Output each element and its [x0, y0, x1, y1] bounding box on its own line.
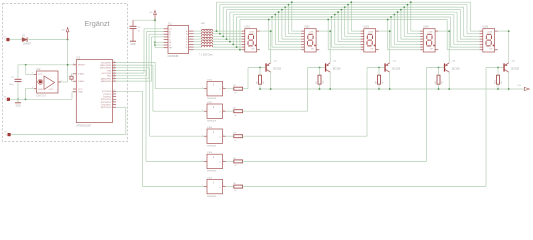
wire bus tap display 3 pin 8 [328, 19, 360, 49]
junction bus tap display 3 line 7 [331, 16, 333, 18]
svg-text:X1: X1 [4, 132, 7, 134]
optocoupler IC2 CNY17 [32, 68, 62, 98]
svg-text:U202: U202 [304, 27, 310, 29]
svg-text:2: 2 [219, 187, 221, 189]
connector pin X1-3 [4, 132, 10, 137]
svg-text:C3: C3 [11, 77, 15, 79]
wire +5V rail [260, 88, 524, 90]
junction bus tap display 3 line 5 [337, 11, 339, 13]
wire R4 to riser digit 4 [243, 160, 427, 162]
svg-text:V105: V105 [207, 177, 213, 179]
svg-text:DP: DP [430, 48, 433, 50]
svg-text:1: 1 [202, 110, 203, 112]
svg-text:Ergänzt: Ergänzt [84, 19, 109, 28]
wire bus riser segment 6 [232, 15, 234, 45]
svg-text:2: 2 [219, 136, 221, 138]
svg-text:BI: BI [169, 42, 171, 44]
svg-text:CD4543B: CD4543B [168, 55, 179, 58]
svg-text:1: 1 [202, 87, 203, 89]
junction bus tap display 3 line 4 [341, 9, 343, 11]
svg-text:DP: DP [252, 48, 255, 50]
junction R8 on rail [378, 88, 380, 90]
junction base Q4 / pull-up [438, 67, 440, 69]
junction Q5 emitter on rail [508, 88, 510, 90]
junction bus riser 5 on row [229, 41, 231, 43]
svg-text:+5V: +5V [517, 85, 521, 87]
svg-text:1k: 1k [234, 92, 236, 94]
wire riser digit 4 to base [426, 68, 428, 162]
junction R9 on rail [438, 88, 440, 90]
junction display U205 COM [508, 30, 510, 32]
optocoupler V104 SFH6206 [202, 152, 226, 173]
display U203 7-segment [361, 27, 379, 52]
junction bus tap display 2 line 1 [291, 1, 293, 3]
resistor R7 pull-up 4k7 [316, 68, 324, 90]
junction bus tap display 3 line 2 [347, 4, 349, 6]
wire segment row a to display U201 [213, 30, 242, 32]
wire R5 to riser digit 5 [243, 186, 487, 188]
junction Q1 emitter on rail [270, 88, 272, 90]
wire bus tap display 3 pin 2 [348, 5, 361, 34]
svg-text:2: 2 [219, 162, 221, 164]
svg-text:(AIN1)PB1: (AIN1)PB1 [101, 77, 112, 80]
wire segment row e to display U201 [213, 41, 242, 43]
wire IC3 PB2 to IC1 input B [116, 32, 164, 76]
decoder IC1 CD4543B [164, 23, 194, 59]
svg-text:1k: 1k [234, 190, 236, 192]
svg-text:IC3: IC3 [76, 57, 81, 60]
svg-text:4k7: 4k7 [382, 80, 384, 84]
svg-text:V103: V103 [207, 127, 213, 129]
svg-text:+5V: +5V [149, 12, 153, 14]
svg-text:BC328: BC328 [273, 67, 281, 70]
wire bus tap display 4 pin 4 [401, 10, 420, 39]
wire RESET net horizontal [18, 64, 76, 66]
junction bus tap display 2 line 3 [284, 6, 286, 8]
svg-text:100n: 100n [9, 84, 15, 86]
junction C3/GND-net [17, 98, 19, 100]
wire display U205 COM to transistor Q5 [498, 31, 509, 63]
wire bus tap display 2 pin 2 [289, 5, 302, 34]
wire display U202 COM to transistor Q2 [319, 31, 330, 63]
svg-text:V101: V101 [207, 80, 213, 82]
wire bus riser segment 7 [236, 17, 238, 47]
svg-text:COM: COM [428, 32, 433, 34]
svg-text:SFH6206: SFH6206 [207, 98, 217, 100]
junction bus riser 1 on row [216, 30, 218, 32]
svg-text:COM: COM [249, 32, 254, 34]
wire bus tap display 5 pin 2 [467, 5, 480, 34]
wire IC2 cathode to GND net [26, 89, 35, 100]
transistor Q4 BC328 [444, 61, 460, 73]
wire bus tap display 5 pin 1 [470, 2, 479, 31]
wire bus line 8 [240, 18, 447, 20]
wire IC1 dp row to display U201 [194, 49, 242, 51]
svg-text:RN1: RN1 [201, 23, 206, 25]
svg-text:GND: GND [130, 44, 135, 46]
display U202 7-segment [301, 27, 319, 52]
svg-text:Q3: Q3 [393, 61, 397, 63]
svg-text:XTAL1: XTAL1 [78, 73, 85, 76]
svg-text:2: 2 [223, 110, 224, 112]
wire bus tap display 4 pin 8 [388, 19, 420, 49]
svg-text:GND: GND [15, 106, 20, 108]
wire bus line 7 [237, 16, 451, 18]
svg-text:4k7: 4k7 [501, 80, 503, 84]
wire display U201 COM to transistor Q1 [260, 31, 271, 63]
junction base Q2 / pull-up [319, 67, 321, 69]
wire bus tap display 5 pin 5 [457, 12, 480, 42]
wire GND net horizontal [10, 98, 72, 100]
svg-text:2: 2 [223, 160, 224, 162]
wire bus tap display 5 pin 4 [460, 10, 479, 39]
wire pin1 to diode D1 [10, 39, 23, 41]
junction bus tap display 3 line 1 [350, 1, 352, 3]
wire segment row f to display U201 [213, 43, 242, 45]
svg-text:1: 1 [213, 105, 215, 109]
junction node diode/VCC [67, 39, 69, 41]
junction Q3 emitter on rail [389, 88, 391, 90]
wire riser digit 2 to base [307, 68, 309, 112]
wire transistor Q3 emitter to +5V rail [389, 72, 391, 89]
junction IC1 pin7 tap [154, 44, 156, 46]
svg-text:C: C [169, 37, 171, 39]
svg-text:2: 2 [5, 99, 7, 101]
junction bus tap display 4 line 8 [387, 19, 389, 21]
transistor Q2 BC328 [325, 61, 341, 73]
svg-text:Q4: Q4 [452, 61, 456, 63]
svg-text:7 x 220 Ohm: 7 x 220 Ohm [199, 54, 213, 57]
wire IC3 PB0 to IC1 input D [116, 37, 164, 81]
svg-text:B: B [169, 34, 171, 36]
junction bus tap display 2 line 4 [281, 9, 283, 11]
svg-text:12: 12 [113, 80, 115, 82]
display U204 7-segment [420, 27, 438, 52]
wire bus tap display 2 pin 4 [282, 10, 301, 39]
resistor R2 1k [226, 108, 243, 117]
wire bus riser segment 8 [239, 19, 241, 49]
junction base Q3 / pull-up [378, 67, 380, 69]
wire bus tap display 4 pin 1 [411, 2, 420, 31]
junction Q4 emitter on rail [448, 88, 450, 90]
junction RESET/VCC1 vertical [67, 64, 69, 66]
svg-text:2: 2 [223, 87, 224, 89]
junction bus riser 4 on row [226, 38, 228, 40]
junction bus tap display 4 line 5 [397, 11, 399, 13]
wire bus tap display 3 pin 4 [341, 10, 360, 39]
svg-text:LT: LT [169, 45, 172, 47]
wire bus tap display 3 pin 3 [345, 7, 361, 36]
svg-text:1: 1 [213, 155, 215, 159]
connector pin X1-1 [3, 37, 9, 42]
svg-text:RESET: RESET [78, 65, 86, 67]
svg-text:SFH6206: SFH6206 [207, 121, 217, 123]
svg-text:BC328: BC328 [452, 67, 460, 70]
svg-text:G: G [186, 47, 188, 49]
svg-text:DP: DP [371, 48, 374, 50]
svg-text:XTAL2: XTAL2 [78, 80, 85, 83]
svg-text:COM: COM [368, 32, 373, 34]
wire transistor Q4 emitter to +5V rail [448, 72, 450, 89]
junction bus tap display 3 line 3 [344, 6, 346, 8]
transistor Q5 BC328 [503, 61, 519, 73]
svg-text:DP: DP [311, 48, 314, 50]
wire riser digit 1 to base [247, 68, 249, 89]
display U201 7-segment [242, 27, 260, 52]
svg-text:VCC: VCC [38, 74, 43, 76]
capacitor C3 100n [9, 77, 22, 86]
svg-text:2: 2 [113, 106, 114, 108]
junction bus tap display 4 line 7 [390, 16, 392, 18]
wire bus tap display 3 pin 5 [338, 12, 361, 42]
wire bus tap display 5 pin 3 [464, 7, 480, 36]
junction R7 on rail [319, 88, 321, 90]
wire bus line 2 [220, 4, 467, 6]
junction display U201 COM [270, 30, 272, 32]
wire bus riser segment 3 [222, 7, 224, 36]
wire bus tap display 5 pin 7 [451, 17, 480, 47]
svg-text:1: 1 [213, 180, 215, 184]
wire R3 to riser digit 3 [243, 135, 368, 137]
wire bus tap display 4 pin 6 [394, 15, 420, 45]
wire R2 to riser digit 2 [243, 110, 308, 112]
junction bus riser 3 on row [222, 36, 224, 38]
svg-text:U201: U201 [245, 27, 251, 29]
optocoupler V103 SFH6206 [202, 127, 226, 148]
svg-text:1k: 1k [234, 140, 236, 142]
junction RESET/IC2 branch [25, 64, 27, 66]
wire IC3 PB3 to IC1 input A [116, 29, 164, 73]
wire segment row g to display U201 [213, 46, 242, 48]
resistor R3 1k [226, 133, 243, 142]
svg-text:U205: U205 [483, 27, 489, 29]
resistor R4 1k [226, 158, 243, 167]
wire segment row c to display U201 [213, 35, 242, 37]
wire bus tap display 4 pin 5 [398, 12, 421, 42]
supply +5V symbol near IC1 [149, 10, 157, 20]
optocoupler V101 SFH6206 [202, 80, 226, 101]
svg-text:DP: DP [490, 48, 493, 50]
junction bus riser 7 on row [236, 46, 238, 48]
wire transistor Q2 emitter to +5V rail [329, 72, 331, 89]
resistor R6 pull-up 4k7 [257, 68, 265, 90]
wire bus tap display 2 pin 6 [275, 15, 301, 45]
svg-text:1: 1 [202, 185, 203, 187]
wire riser digit 5 to base [485, 68, 487, 187]
wire transistor Q1 emitter to +5V rail [270, 72, 272, 89]
wire IC3 PB5 to optocoupler V103 [116, 68, 204, 136]
wire IC3 PB1 to IC1 input C [116, 34, 164, 78]
wire bus tap display 3 pin 6 [335, 15, 361, 45]
svg-text:SFH6206: SFH6206 [207, 171, 217, 173]
wire display U203 COM to transistor Q3 [379, 31, 390, 63]
wire bus line 5 [230, 11, 457, 13]
wire capacitor C3 to GND net [17, 82, 19, 99]
junction bus riser 6 on row [232, 44, 234, 46]
optocoupler V102 SFH6206 [202, 102, 226, 123]
junction bus tap display 4 line 3 [403, 6, 405, 8]
wire bus tap display 4 pin 3 [404, 7, 420, 36]
svg-text:2: 2 [219, 89, 221, 91]
svg-text:SFH6206: SFH6206 [207, 146, 217, 148]
wire bus riser segment 4 [226, 10, 228, 39]
svg-text:1k: 1k [234, 115, 236, 117]
svg-text:4k7: 4k7 [322, 80, 324, 84]
svg-text:COM: COM [309, 32, 314, 34]
junction R10 on rail [497, 88, 499, 90]
svg-text:(AIN0)PB0: (AIN0)PB0 [101, 80, 112, 83]
wire +5V to C2 and IC1 pins [133, 20, 155, 48]
wire base Q5 [486, 67, 503, 69]
svg-text:1: 1 [202, 160, 203, 162]
svg-text:D: D [169, 40, 171, 42]
resistor R8 pull-up 4k7 [376, 68, 384, 90]
ground symbol GND1 [15, 99, 21, 107]
svg-text:SFH6206: SFH6206 [207, 196, 217, 198]
wire display U204 COM to transistor Q4 [438, 31, 449, 63]
svg-text:IC1: IC1 [168, 23, 173, 26]
svg-text:2: 2 [32, 73, 33, 75]
wire bus tap display 3 pin 1 [351, 2, 360, 31]
wire bus tap display 2 pin 8 [269, 19, 301, 49]
wire pin3 to IC3 PD0 [11, 107, 126, 134]
junction bus tap display 2 line 7 [271, 16, 273, 18]
svg-text:A: A [186, 30, 188, 33]
junction bus tap display 4 line 1 [410, 1, 412, 3]
junction bus tap display 4 line 4 [400, 9, 402, 11]
supply +5V arrow right end of rail [517, 85, 529, 91]
svg-text:LD: LD [169, 29, 172, 31]
ground symbol GND2 under C2 [130, 41, 136, 46]
resistor array RN1 7x220 Ohm [194, 23, 213, 56]
wire bus tap display 5 pin 6 [454, 15, 480, 45]
wire IC3 PB7 to optocoupler V101 [116, 63, 204, 89]
junction bus tap display 2 line 6 [274, 14, 276, 16]
wire bus riser segment 2 [219, 5, 221, 34]
svg-text:VCC: VCC [78, 89, 83, 91]
svg-text:3: 3 [5, 134, 7, 136]
label Ergänzt [84, 19, 109, 28]
svg-text:4k7: 4k7 [263, 80, 265, 84]
wire riser digit 3 to base [366, 68, 368, 137]
wire bus tap display 2 pin 7 [272, 17, 301, 47]
wire bus tap display 2 pin 3 [285, 7, 301, 36]
junction bus tap display 2 line 8 [268, 19, 270, 21]
svg-text:U204: U204 [423, 27, 429, 29]
junction base Q1 / pull-up [259, 67, 261, 69]
svg-text:A: A [169, 30, 171, 33]
svg-text:4k7: 4k7 [441, 80, 443, 84]
svg-text:1: 1 [213, 83, 215, 87]
wire base Q4 [427, 67, 444, 69]
wire node VCC1 down to RESET line and IC2 OUT [67, 40, 69, 82]
wire IC2 OUT to VCC1 vertical [61, 81, 68, 83]
svg-text:CNY17-3: CNY17-3 [37, 96, 47, 98]
wire bus line 6 [233, 14, 454, 16]
junction display U204 COM [448, 30, 450, 32]
wire bus tap display 5 pin 8 [447, 19, 479, 49]
svg-text:2: 2 [219, 111, 221, 113]
junction bus tap display 2 line 2 [288, 4, 290, 6]
svg-text:C2: C2 [138, 27, 142, 29]
junction base Q5 / pull-up [497, 67, 499, 69]
junction bus riser 8 on row [239, 49, 241, 51]
junction bus tap display 3 line 6 [334, 14, 336, 16]
svg-text:(RXD)PD0: (RXD)PD0 [101, 107, 112, 109]
crystal Q1 at XTAL pins [70, 74, 73, 81]
svg-text:1: 1 [73, 63, 74, 65]
junction bus riser 2 on row [219, 33, 221, 35]
wire RESET line to capacitor C3 [17, 65, 19, 79]
wire diode D1 to node VCC1 [28, 39, 67, 41]
svg-text:AT90S2313P: AT90S2313P [76, 124, 91, 127]
junction bus tap display 4 line 2 [407, 4, 409, 6]
svg-text:COM: COM [487, 32, 492, 34]
mcu IC3 AT90S2313P [73, 57, 116, 128]
wire bus tap display 3 pin 7 [332, 17, 361, 47]
svg-text:Q2: Q2 [333, 61, 337, 63]
svg-text:Q5: Q5 [512, 61, 516, 63]
svg-text:2: 2 [223, 135, 224, 137]
svg-text:D1: D1 [22, 36, 26, 38]
wire bus tap display 2 pin 1 [292, 2, 301, 31]
junction IC2 lower pin to GND net [25, 98, 27, 100]
optocoupler V105 SFH6206 [202, 177, 226, 198]
junction bus tap display 3 line 8 [327, 19, 329, 21]
svg-text:IC2: IC2 [37, 68, 42, 71]
svg-text:X1: X1 [3, 37, 6, 39]
wire base Q1 [248, 67, 265, 69]
svg-text:BC328: BC328 [333, 67, 341, 70]
svg-text:V102: V102 [207, 102, 213, 104]
display U205 7-segment [480, 27, 498, 52]
junction display U202 COM [329, 30, 331, 32]
wire IC3 PB4 to optocoupler V104 [116, 70, 204, 161]
connector pin X1-2 [4, 96, 10, 101]
wire base Q3 [367, 67, 384, 69]
junction +5V stem [154, 19, 156, 21]
svg-text:PH: PH [169, 48, 172, 50]
transistor Q3 BC328 [384, 61, 400, 73]
junction display U203 COM [389, 30, 391, 32]
svg-text:Q1: Q1 [274, 61, 278, 63]
dashed box Ergänzt outline [3, 4, 128, 142]
transistor Q1 BC328 [265, 61, 281, 73]
capacitor C2 100n [130, 20, 142, 41]
junction IC1 pin6 tap [154, 41, 156, 43]
wire bus riser segment 5 [229, 12, 231, 42]
wire IC3 PD6 to optocoupler V105 [116, 91, 204, 186]
resistor R10 pull-up 4k7 [495, 68, 503, 90]
wire bus tap display 4 pin 2 [408, 5, 421, 34]
svg-text:1N4007: 1N4007 [23, 43, 32, 45]
svg-text:1: 1 [213, 130, 215, 134]
svg-text:OUT: OUT [49, 89, 54, 91]
wire IC3 PB6 to optocoupler V102 [116, 65, 204, 111]
svg-text:3: 3 [32, 87, 33, 89]
wire bus riser segment 1 [216, 2, 218, 31]
wire bus tap display 4 pin 7 [391, 17, 420, 47]
junction bus tap display 2 line 5 [278, 11, 280, 13]
svg-text:2: 2 [223, 185, 224, 187]
svg-text:1: 1 [4, 39, 6, 41]
svg-text:V104: V104 [207, 152, 213, 154]
wire bus line 4 [227, 9, 461, 11]
svg-text:BC328: BC328 [392, 67, 400, 70]
wire bus tap display 2 pin 5 [279, 12, 302, 42]
junction Q2 emitter on rail [329, 88, 331, 90]
wire segment row d to display U201 [213, 38, 242, 40]
